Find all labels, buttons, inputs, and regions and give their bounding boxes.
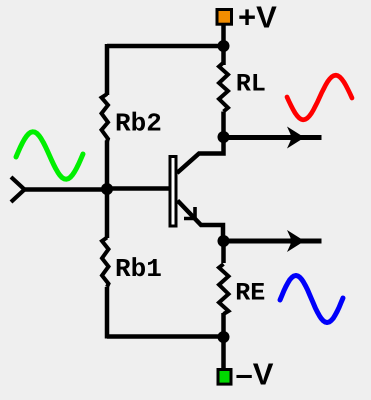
wire: left trunk between Rb2 and base node <box>105 141 110 190</box>
wire: collector node down and over to transistor <box>177 137 224 173</box>
resistor RE <box>219 264 229 314</box>
wire: input line from chevron to base node <box>22 187 107 192</box>
wire: bottom node down to -V square <box>221 337 226 369</box>
transistor Q1 emitter arrowhead <box>184 207 195 219</box>
wire: +V square down to top node <box>221 25 226 46</box>
terminal -V square <box>218 370 231 385</box>
svg-text:Rb2: Rb2 <box>115 109 162 139</box>
resistor Rb2 <box>102 94 109 142</box>
transistor Q1 emitter diagonal <box>178 201 224 242</box>
sine wave blue (emitter output signal) <box>280 276 343 323</box>
transistor Q1 base bar (outlined) <box>170 157 176 227</box>
wire: left trunk between base node and Rb1 top <box>105 189 110 238</box>
junction node at top rail <box>218 40 230 52</box>
junction node at emitter <box>218 235 230 247</box>
svg-text:RE: RE <box>235 279 265 308</box>
wire: emitter node down to RE top <box>221 241 226 263</box>
arrowhead on emitter output <box>287 230 305 252</box>
wire: base node to transistor bar <box>107 186 169 191</box>
wire: RL bottom to collector node <box>221 112 226 138</box>
junction node at bottom rail <box>218 331 230 343</box>
junction node at collector <box>218 131 230 143</box>
input chevron arrowhead <box>11 177 25 202</box>
sine wave green (input signal) <box>16 132 83 179</box>
wire: RE bottom to bottom node <box>221 313 226 337</box>
wire: top rail from left branch to +V node <box>107 44 224 49</box>
svg-text:–V: –V <box>236 357 274 392</box>
wire: left trunk lower (Rb1 bottom to bottom rail corner) <box>105 287 110 339</box>
wire: emitter output line <box>224 239 322 244</box>
wire: bottom rail from left branch to -V node <box>107 334 224 339</box>
sine wave red (collector output signal) <box>287 75 352 120</box>
arrowhead on collector output <box>287 127 305 149</box>
terminal +V square <box>217 10 232 25</box>
svg-text:Rb1: Rb1 <box>115 254 162 284</box>
wire: top node down to RL top <box>221 46 226 65</box>
svg-text:+V: +V <box>238 0 277 35</box>
wire: collector output line <box>224 135 322 140</box>
wire: left vertical trunk upper (top rail corner down to Rb2 top) <box>105 44 110 95</box>
svg-text:RL: RL <box>236 70 266 99</box>
resistor RL <box>219 63 228 112</box>
resistor Rb1 <box>102 238 109 288</box>
junction node at base <box>101 183 113 195</box>
